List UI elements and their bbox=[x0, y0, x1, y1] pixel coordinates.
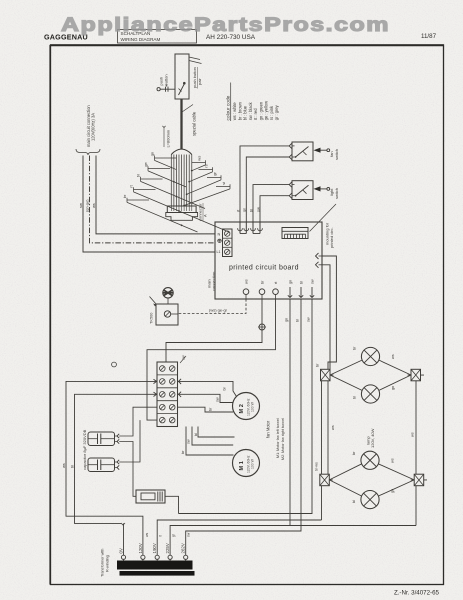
svg-text:(ws) ge-gr: (ws) ge-gr bbox=[209, 308, 228, 313]
svg-text:190V: 190V bbox=[152, 543, 157, 553]
svg-text:225V: 225V bbox=[165, 543, 170, 553]
svg-text:switch: switch bbox=[334, 149, 339, 160]
svg-text:sw: sw bbox=[78, 203, 83, 208]
svg-text:Z.-Nr. 3/4072-65: Z.-Nr. 3/4072-65 bbox=[394, 590, 440, 597]
svg-text:ws: ws bbox=[391, 458, 395, 463]
svg-text:rt: rt bbox=[159, 535, 163, 537]
svg-text:R-winding: R-winding bbox=[105, 555, 109, 572]
svg-text:M1: Motor fan left tunnel: M1: Motor fan left tunnel bbox=[276, 418, 280, 458]
svg-text:WIRING DIAGRAM: WIRING DIAGRAM bbox=[121, 37, 161, 42]
svg-text:rs : pink: rs : pink bbox=[269, 105, 274, 120]
svg-text:gn: gn bbox=[150, 152, 155, 156]
svg-text:ws: ws bbox=[331, 425, 335, 430]
svg-text:connection: connection bbox=[211, 272, 216, 291]
svg-text:bl: bl bbox=[352, 500, 356, 503]
svg-text:100 W: 100 W bbox=[251, 401, 255, 412]
svg-text:11/87: 11/87 bbox=[421, 33, 437, 40]
svg-text:gn: gn bbox=[391, 489, 395, 493]
svg-text:vi: vi bbox=[221, 182, 226, 185]
svg-text:switch: switch bbox=[334, 188, 339, 199]
svg-text:sw: sw bbox=[311, 279, 315, 284]
svg-text:gn: gn bbox=[242, 208, 247, 212]
svg-text:bl: bl bbox=[300, 281, 304, 284]
svg-text:printed circuit board: printed circuit board bbox=[229, 265, 299, 272]
svg-text:(gn-ge): (gn-ge) bbox=[85, 199, 90, 212]
svg-text:rs: rs bbox=[204, 164, 209, 167]
svg-text:ws: ws bbox=[61, 463, 66, 468]
svg-text:bl: bl bbox=[69, 465, 74, 468]
svg-text:br : brown: br : brown bbox=[237, 101, 242, 120]
svg-text:bl: bl bbox=[248, 209, 253, 212]
svg-text:100 W: 100 W bbox=[251, 458, 255, 469]
svg-text:gn: gn bbox=[285, 318, 289, 322]
svg-text:ws: ws bbox=[145, 533, 149, 537]
svg-text:ge: ge bbox=[143, 161, 148, 166]
svg-text:ge : yellow: ge : yellow bbox=[264, 101, 269, 120]
svg-text:262V: 262V bbox=[181, 543, 186, 553]
svg-text:120V: 120V bbox=[138, 543, 143, 553]
svg-text:bl: bl bbox=[136, 174, 141, 177]
svg-text:ws: ws bbox=[410, 432, 414, 437]
svg-text:ws : white: ws : white bbox=[232, 102, 237, 121]
svg-text:bl: bl bbox=[223, 387, 227, 390]
svg-text:button: button bbox=[163, 74, 168, 85]
svg-text:fan Motor: fan Motor bbox=[266, 420, 271, 438]
svg-text:sw: sw bbox=[215, 397, 219, 402]
svg-text:L1: L1 bbox=[217, 250, 221, 254]
svg-text:L≈800mm: L≈800mm bbox=[165, 129, 170, 147]
svg-text:bl: bl bbox=[194, 433, 198, 436]
svg-text:M2: Motor fan right tunnel: M2: Motor fan right tunnel bbox=[281, 418, 285, 460]
svg-text:120V, 40W: 120V, 40W bbox=[370, 428, 375, 448]
svg-text:connector: connector bbox=[198, 203, 203, 221]
svg-text:rt : red: rt : red bbox=[253, 108, 258, 121]
svg-text:sw : black: sw : black bbox=[248, 101, 253, 120]
svg-text:gn: gn bbox=[289, 280, 293, 284]
svg-text:ws: ws bbox=[91, 203, 96, 208]
svg-text:N: N bbox=[218, 233, 221, 237]
svg-text:120V(60Hz) 3A: 120V(60Hz) 3A bbox=[91, 113, 96, 141]
svg-text:M 1: M 1 bbox=[239, 461, 245, 470]
svg-text:capacitor 8µF 320VDB: capacitor 8µF 320VDB bbox=[82, 429, 87, 470]
svg-text:sw: sw bbox=[307, 317, 311, 322]
svg-text:M 2: M 2 bbox=[239, 404, 245, 413]
svg-text:bl : blue: bl : blue bbox=[243, 105, 248, 120]
svg-text:bl: bl bbox=[352, 396, 356, 399]
svg-text:ws: ws bbox=[197, 156, 202, 161]
svg-text:0V: 0V bbox=[119, 548, 124, 553]
svg-text:ws: ws bbox=[391, 354, 395, 359]
svg-text:printed circ.: printed circ. bbox=[329, 227, 334, 248]
svg-text:Transformer with: Transformer with bbox=[101, 549, 105, 577]
svg-text:ws: ws bbox=[245, 279, 249, 284]
svg-text:TK500: TK500 bbox=[149, 312, 154, 324]
svg-text:sw: sw bbox=[187, 439, 191, 444]
svg-text:gn: gn bbox=[391, 386, 395, 390]
svg-text:gn : green: gn : green bbox=[258, 101, 263, 120]
svg-text:sw: sw bbox=[187, 532, 191, 537]
svg-text:spezial cable: spezial cable bbox=[192, 111, 197, 136]
svg-text:br-ws: br-ws bbox=[315, 462, 319, 471]
svg-text:sw: sw bbox=[255, 207, 260, 212]
svg-text:gr : grey: gr : grey bbox=[274, 104, 279, 120]
svg-text:bl: bl bbox=[296, 319, 300, 322]
